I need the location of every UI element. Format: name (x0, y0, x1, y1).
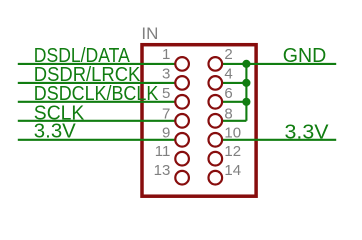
pin 12 (209, 143, 242, 165)
wire stub pin 4 (222, 82, 246, 84)
svg-text:GND: GND (283, 45, 327, 67)
pin 4 (209, 66, 233, 90)
svg-text:11: 11 (155, 143, 171, 160)
svg-text:IN: IN (141, 24, 158, 43)
pin 7 (162, 105, 189, 127)
wire stub pin 6 (222, 101, 246, 103)
pin 9 (162, 124, 189, 146)
svg-text:14: 14 (224, 162, 241, 179)
pin 11 (155, 143, 189, 165)
svg-text:6: 6 (224, 85, 232, 102)
svg-text:5: 5 (162, 85, 170, 102)
pin 13 (154, 162, 189, 184)
svg-text:13: 13 (154, 162, 171, 179)
svg-text:2: 2 (224, 46, 232, 63)
svg-text:1: 1 (162, 46, 170, 63)
svg-text:3: 3 (162, 66, 170, 83)
pin 8 (209, 105, 233, 127)
wire net 3.3V right (from pin 10 to right) (222, 139, 336, 141)
pin 3 (162, 66, 189, 90)
wire net DSDR/LRCK (to pin 3) (18, 82, 175, 84)
svg-text:3.3V: 3.3V (285, 122, 330, 144)
svg-text:10: 10 (224, 124, 241, 141)
svg-text:8: 8 (224, 105, 232, 122)
wire stub pin 8 (222, 120, 246, 122)
svg-text:12: 12 (224, 143, 241, 160)
svg-text:9: 9 (162, 124, 170, 141)
wire net DSDCLK/BCLK (to pin 5) (18, 101, 175, 103)
pin 1 (162, 46, 189, 71)
svg-text:3.3V: 3.3V (34, 121, 77, 143)
pin 14 (209, 162, 242, 184)
junction GND at pin 2 (242, 60, 250, 68)
wire net DSDL/DATA (to pin 1) (18, 63, 175, 65)
junction GND at pin 6 (242, 98, 250, 106)
connector body (header symbol outline) (142, 45, 256, 197)
pin 6 (209, 85, 233, 108)
svg-text:7: 7 (162, 105, 170, 122)
wire GND vertical bus (pins 2-4-6-8) (245, 64, 247, 121)
wire net SCLK (to pin 7) (18, 120, 175, 122)
svg-text:4: 4 (224, 66, 232, 83)
junction GND at pin 4 (242, 79, 250, 87)
pin 2 (209, 46, 233, 71)
pin 10 (209, 124, 242, 146)
pin 5 (162, 85, 189, 108)
wire net 3.3V left (to pin 9) (18, 139, 175, 141)
wire net GND horizontal (from pin 2 to right) (222, 63, 336, 65)
